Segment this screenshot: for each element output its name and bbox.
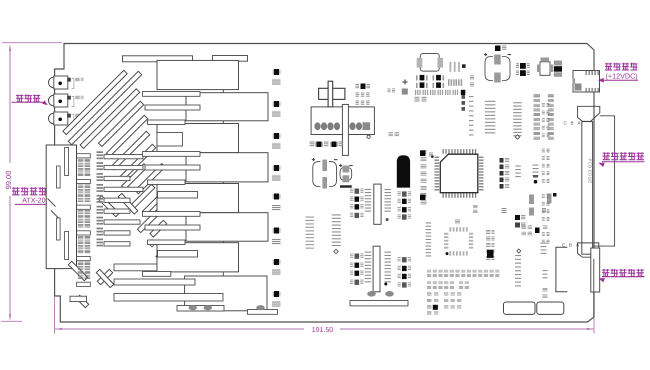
svg-text:PCB EDGE: PCB EDGE xyxy=(587,159,592,184)
svg-text:B: B xyxy=(571,121,574,126)
svg-text:B: B xyxy=(569,242,572,247)
svg-text:ATX-20: ATX-20 xyxy=(22,198,45,205)
svg-text:99.00: 99.00 xyxy=(4,171,13,190)
svg-text:(+12VDC): (+12VDC) xyxy=(606,71,638,80)
svg-text:191.50: 191.50 xyxy=(312,327,334,334)
